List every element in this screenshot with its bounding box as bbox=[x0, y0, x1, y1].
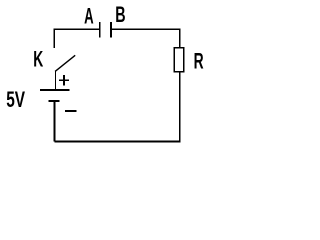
wire: top wire right segment (capacitor plate B to top-right corner) bbox=[111, 28, 180, 30]
svg-text:K: K bbox=[33, 46, 44, 71]
plus sign (battery positive) horizontal bar bbox=[59, 79, 69, 81]
capacitor C right plate (node B) bbox=[110, 22, 112, 38]
wire: right vertical lower (resistor to bottom-right corner) bbox=[179, 72, 181, 143]
capacitor C left plate (node A) bbox=[99, 22, 101, 38]
svg-text:R: R bbox=[194, 48, 204, 73]
svg-text:B: B bbox=[115, 2, 125, 27]
battery positive plate (long) bbox=[40, 89, 70, 91]
battery negative plate (short) bbox=[48, 100, 59, 102]
resistor R body bbox=[174, 48, 183, 72]
wire: bottom wire bbox=[54, 141, 180, 143]
minus sign (battery negative) bbox=[65, 110, 76, 112]
svg-text:A: A bbox=[84, 4, 94, 28]
wire: left vertical upper (top-left corner down to switch fixed contact) bbox=[53, 29, 55, 48]
wire: top wire left segment (corner to capacitor plate A) bbox=[54, 28, 99, 30]
switch K blade (open) bbox=[55, 55, 75, 71]
wire: switch pivot down to battery positive plate bbox=[55, 71, 57, 90]
plus sign (battery positive) vertical bar bbox=[63, 75, 65, 85]
wire: battery negative stem down to bottom wire bbox=[54, 101, 56, 141]
svg-text:5V: 5V bbox=[6, 88, 25, 112]
wire: right vertical upper (top-right corner to resistor) bbox=[179, 29, 181, 48]
